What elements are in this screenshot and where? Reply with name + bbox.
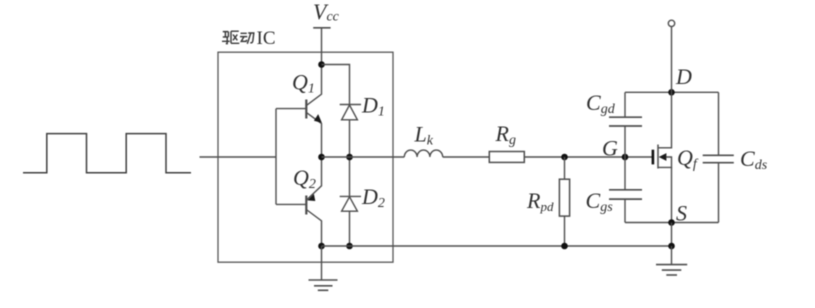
resistor Rg: [489, 152, 524, 163]
drain terminal circle: [668, 20, 674, 26]
inductor Lk: [404, 150, 442, 157]
wire Cgd to top rail: [624, 92, 626, 117]
node S: [668, 219, 675, 226]
ground driver: [309, 246, 338, 290]
wire source rail: [625, 222, 719, 224]
node D: [668, 89, 675, 96]
transistor Q1: [276, 65, 322, 158]
svg-text:Cgs: Cgs: [586, 188, 614, 215]
svg-text:Vcc: Vcc: [313, 0, 340, 25]
driver IC box: [218, 52, 393, 262]
diode D2: [340, 157, 361, 246]
wire top rail: [625, 91, 719, 93]
svg-text:D1: D1: [361, 93, 385, 120]
label driver IC: [222, 31, 254, 44]
hanzi qu: [222, 31, 239, 43]
wire right branch lower: [718, 163, 720, 223]
wire left branch upper: [624, 126, 626, 157]
node Rpd bottom: [561, 243, 568, 250]
wire Vcc vertical: [321, 28, 323, 65]
capacitor Cds: [703, 155, 734, 162]
mosfet Qf: [653, 92, 672, 222]
svg-text:G: G: [602, 136, 618, 161]
svg-text:Rpd: Rpd: [526, 188, 554, 214]
capacitor Cgd: [609, 117, 642, 126]
wire drain terminal: [671, 27, 673, 93]
svg-text:Cds: Cds: [740, 146, 768, 173]
capacitor Cgs: [609, 190, 642, 199]
wire left branch lower: [624, 157, 626, 190]
wire source to ground: [671, 223, 673, 247]
wire Rg to gate: [524, 156, 652, 158]
resistor Rpd: [559, 157, 569, 246]
node bottom Q2: [318, 243, 325, 250]
wire to D1 top: [322, 65, 350, 105]
ground source: [656, 246, 687, 275]
wire Cgs to source rail: [624, 199, 626, 222]
svg-text:D2: D2: [361, 184, 385, 211]
svg-text:Cgd: Cgd: [586, 90, 616, 117]
wire bottom rail: [322, 245, 672, 247]
svg-text:Lk: Lk: [414, 122, 434, 149]
wire output line: [322, 156, 405, 158]
node D1 anode: [346, 154, 353, 161]
node Vcc junction: [318, 61, 325, 68]
svg-text:Q1: Q1: [292, 70, 315, 97]
wire Lk to Rg: [443, 156, 490, 158]
node bottom D2: [346, 243, 353, 250]
hanzi dong: [240, 33, 254, 44]
node Rpd top: [561, 154, 568, 161]
input square wave: [23, 134, 191, 173]
svg-text:D: D: [675, 64, 692, 89]
wire right branch upper: [718, 92, 720, 155]
node G: [622, 154, 629, 161]
transistor Q2: [276, 157, 322, 246]
node output mid Q: [318, 154, 325, 161]
svg-text:Qf: Qf: [677, 145, 699, 172]
diode D1: [340, 105, 361, 158]
Vcc supply bar: [313, 27, 330, 29]
wire input line: [200, 156, 277, 158]
svg-text:S: S: [676, 201, 687, 226]
node source ground: [668, 243, 675, 250]
svg-text:Rg: Rg: [495, 121, 516, 148]
svg-text:IC: IC: [257, 28, 276, 49]
wire base drive vertical: [275, 109, 277, 205]
svg-text:Q2: Q2: [293, 165, 316, 192]
